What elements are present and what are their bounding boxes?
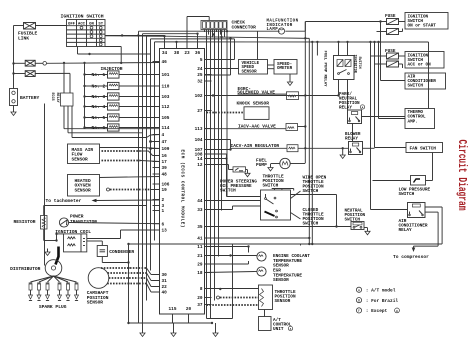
svg-text:ON or START: ON or START xyxy=(408,24,437,29)
svg-text:RESISTOR: RESISTOR xyxy=(14,219,36,225)
svg-text:37: 37 xyxy=(197,303,203,308)
svg-text:No. 6: No. 6 xyxy=(92,125,106,131)
svg-text:33: 33 xyxy=(197,208,203,213)
svg-text:B: B xyxy=(358,299,360,303)
svg-text:SENSOR: SENSOR xyxy=(87,300,104,306)
svg-text:110: 110 xyxy=(162,85,170,90)
svg-text:20: 20 xyxy=(186,307,192,312)
svg-text:RELAY: RELAY xyxy=(55,93,59,104)
svg-text:19: 19 xyxy=(162,188,168,193)
svg-text:12: 12 xyxy=(197,163,203,168)
svg-text:SPARK PLUG: SPARK PLUG xyxy=(39,304,67,310)
svg-text:ECCS: ECCS xyxy=(50,93,54,101)
svg-text:29: 29 xyxy=(197,263,203,268)
svg-text:Circuit Diagram: Circuit Diagram xyxy=(455,140,469,211)
svg-text:CONDENSER: CONDENSER xyxy=(109,249,134,255)
svg-text:SENSOR: SENSOR xyxy=(242,71,258,75)
svg-text:31: 31 xyxy=(162,279,168,284)
svg-text:14: 14 xyxy=(197,157,203,162)
svg-text:20: 20 xyxy=(197,296,203,301)
svg-text:B: B xyxy=(396,310,398,313)
svg-text:SWITCH: SWITCH xyxy=(303,221,319,226)
svg-text:RELAY: RELAY xyxy=(345,137,358,142)
svg-text:IGNITION SWITCH: IGNITION SWITCH xyxy=(61,14,104,20)
svg-text:40: 40 xyxy=(162,291,168,296)
svg-text:LINK: LINK xyxy=(18,36,29,42)
svg-text:1: 1 xyxy=(162,209,165,214)
svg-text:24: 24 xyxy=(197,67,203,72)
svg-text:48: 48 xyxy=(162,173,168,178)
svg-text:46: 46 xyxy=(162,60,168,65)
svg-text:No. 3: No. 3 xyxy=(92,94,106,100)
svg-text:A: A xyxy=(358,288,360,292)
svg-text:16: 16 xyxy=(162,154,168,159)
svg-text:PUMP: PUMP xyxy=(256,162,267,168)
svg-text:23: 23 xyxy=(184,51,190,56)
svg-text:No. 1: No. 1 xyxy=(92,72,106,78)
svg-text:104: 104 xyxy=(195,138,203,143)
svg-text:SWITCH: SWITCH xyxy=(399,192,415,197)
svg-text:ST: ST xyxy=(98,22,103,26)
svg-text:21: 21 xyxy=(197,254,203,259)
svg-text:SENSOR: SENSOR xyxy=(75,188,92,194)
svg-text:AMP.: AMP. xyxy=(408,119,418,124)
svg-text:47: 47 xyxy=(162,140,168,145)
svg-text:114: 114 xyxy=(162,126,170,131)
svg-text:41: 41 xyxy=(197,237,203,242)
svg-text:109: 109 xyxy=(162,147,170,152)
svg-text:: For Brazil: : For Brazil xyxy=(366,298,399,304)
svg-text:To tachometer: To tachometer xyxy=(46,198,82,204)
svg-text:SWITCH: SWITCH xyxy=(408,84,424,89)
svg-text:A: A xyxy=(290,328,292,331)
svg-text:SENSOR: SENSOR xyxy=(273,278,289,283)
svg-text:To compressor: To compressor xyxy=(393,254,429,260)
svg-text:25: 25 xyxy=(197,73,203,78)
svg-text:27: 27 xyxy=(197,109,203,114)
svg-text:34: 34 xyxy=(162,51,168,56)
svg-text:No. 2: No. 2 xyxy=(92,84,106,90)
svg-text:SENSOR: SENSOR xyxy=(273,263,289,268)
svg-text:44: 44 xyxy=(197,199,203,204)
svg-text:BATTERY: BATTERY xyxy=(20,95,40,101)
svg-text:VEHICLE: VEHICLE xyxy=(242,62,260,66)
svg-text:35: 35 xyxy=(197,225,203,230)
svg-text:DISTRIBUTOR: DISTRIBUTOR xyxy=(10,266,41,272)
svg-text:INHIBITOR: INHIBITOR xyxy=(353,55,357,74)
svg-text:6: 6 xyxy=(162,222,165,227)
svg-text:POWER: POWER xyxy=(70,214,84,220)
svg-text:8: 8 xyxy=(200,287,203,292)
svg-text:5: 5 xyxy=(200,58,203,63)
svg-text:A: A xyxy=(362,107,364,110)
svg-text:F: F xyxy=(358,309,360,313)
svg-text:113: 113 xyxy=(195,127,203,132)
svg-text:KNOCK SENSOR: KNOCK SENSOR xyxy=(237,101,270,107)
svg-text:SWITCH: SWITCH xyxy=(303,189,319,194)
svg-text:UNIT: UNIT xyxy=(273,327,284,332)
svg-text:2: 2 xyxy=(162,198,165,203)
svg-text:LAMP: LAMP xyxy=(267,28,279,32)
svg-text:ACC: ACC xyxy=(78,22,86,26)
svg-text:11: 11 xyxy=(197,245,203,250)
svg-text:38: 38 xyxy=(174,51,180,56)
svg-text:No. 5: No. 5 xyxy=(92,115,106,121)
svg-text:17: 17 xyxy=(162,160,168,165)
svg-text:SENSOR: SENSOR xyxy=(275,299,291,304)
svg-text:CONNECTOR: CONNECTOR xyxy=(232,25,257,31)
svg-text:: A/T model: : A/T model xyxy=(366,288,396,294)
svg-text:SENSOR: SENSOR xyxy=(72,157,89,163)
svg-text:SWITCH: SWITCH xyxy=(263,183,279,188)
svg-text:ECM (ECCS CONTROL MODULE): ECM (ECCS CONTROL MODULE) xyxy=(180,150,185,228)
svg-text:SPEED: SPEED xyxy=(242,66,255,70)
svg-text:SPEED-: SPEED- xyxy=(277,63,292,67)
svg-text:OMETER: OMETER xyxy=(277,67,293,71)
svg-text:102: 102 xyxy=(195,94,203,99)
svg-text:36: 36 xyxy=(195,51,201,56)
svg-text:30: 30 xyxy=(162,273,168,278)
svg-text:22: 22 xyxy=(162,285,168,290)
svg-text:ACC or ON: ACC or ON xyxy=(408,63,432,68)
svg-text:RELAY: RELAY xyxy=(399,228,413,233)
svg-text:32: 32 xyxy=(197,80,203,85)
svg-text:OFF: OFF xyxy=(68,22,76,26)
svg-text:TRANSISTOR: TRANSISTOR xyxy=(70,219,97,225)
svg-text:103: 103 xyxy=(162,95,170,100)
svg-text:ON: ON xyxy=(89,22,94,26)
svg-text:SWITCH: SWITCH xyxy=(220,189,236,194)
svg-text:FUEL PUMP RELAY: FUEL PUMP RELAY xyxy=(323,51,327,88)
svg-text:: Except: : Except xyxy=(366,308,388,314)
svg-text:13: 13 xyxy=(162,229,168,234)
svg-text:112: 112 xyxy=(162,105,170,110)
svg-text:101: 101 xyxy=(162,73,170,78)
svg-text:SWITCH: SWITCH xyxy=(357,57,361,69)
svg-text:105: 105 xyxy=(162,116,170,121)
svg-text:4: 4 xyxy=(162,133,165,138)
svg-text:No. 4: No. 4 xyxy=(92,104,106,110)
svg-text:FAN SWITCH: FAN SWITCH xyxy=(410,146,437,151)
svg-text:39: 39 xyxy=(162,166,168,171)
svg-text:106: 106 xyxy=(162,183,170,188)
svg-text:115: 115 xyxy=(169,307,177,312)
svg-text:18: 18 xyxy=(197,271,203,276)
